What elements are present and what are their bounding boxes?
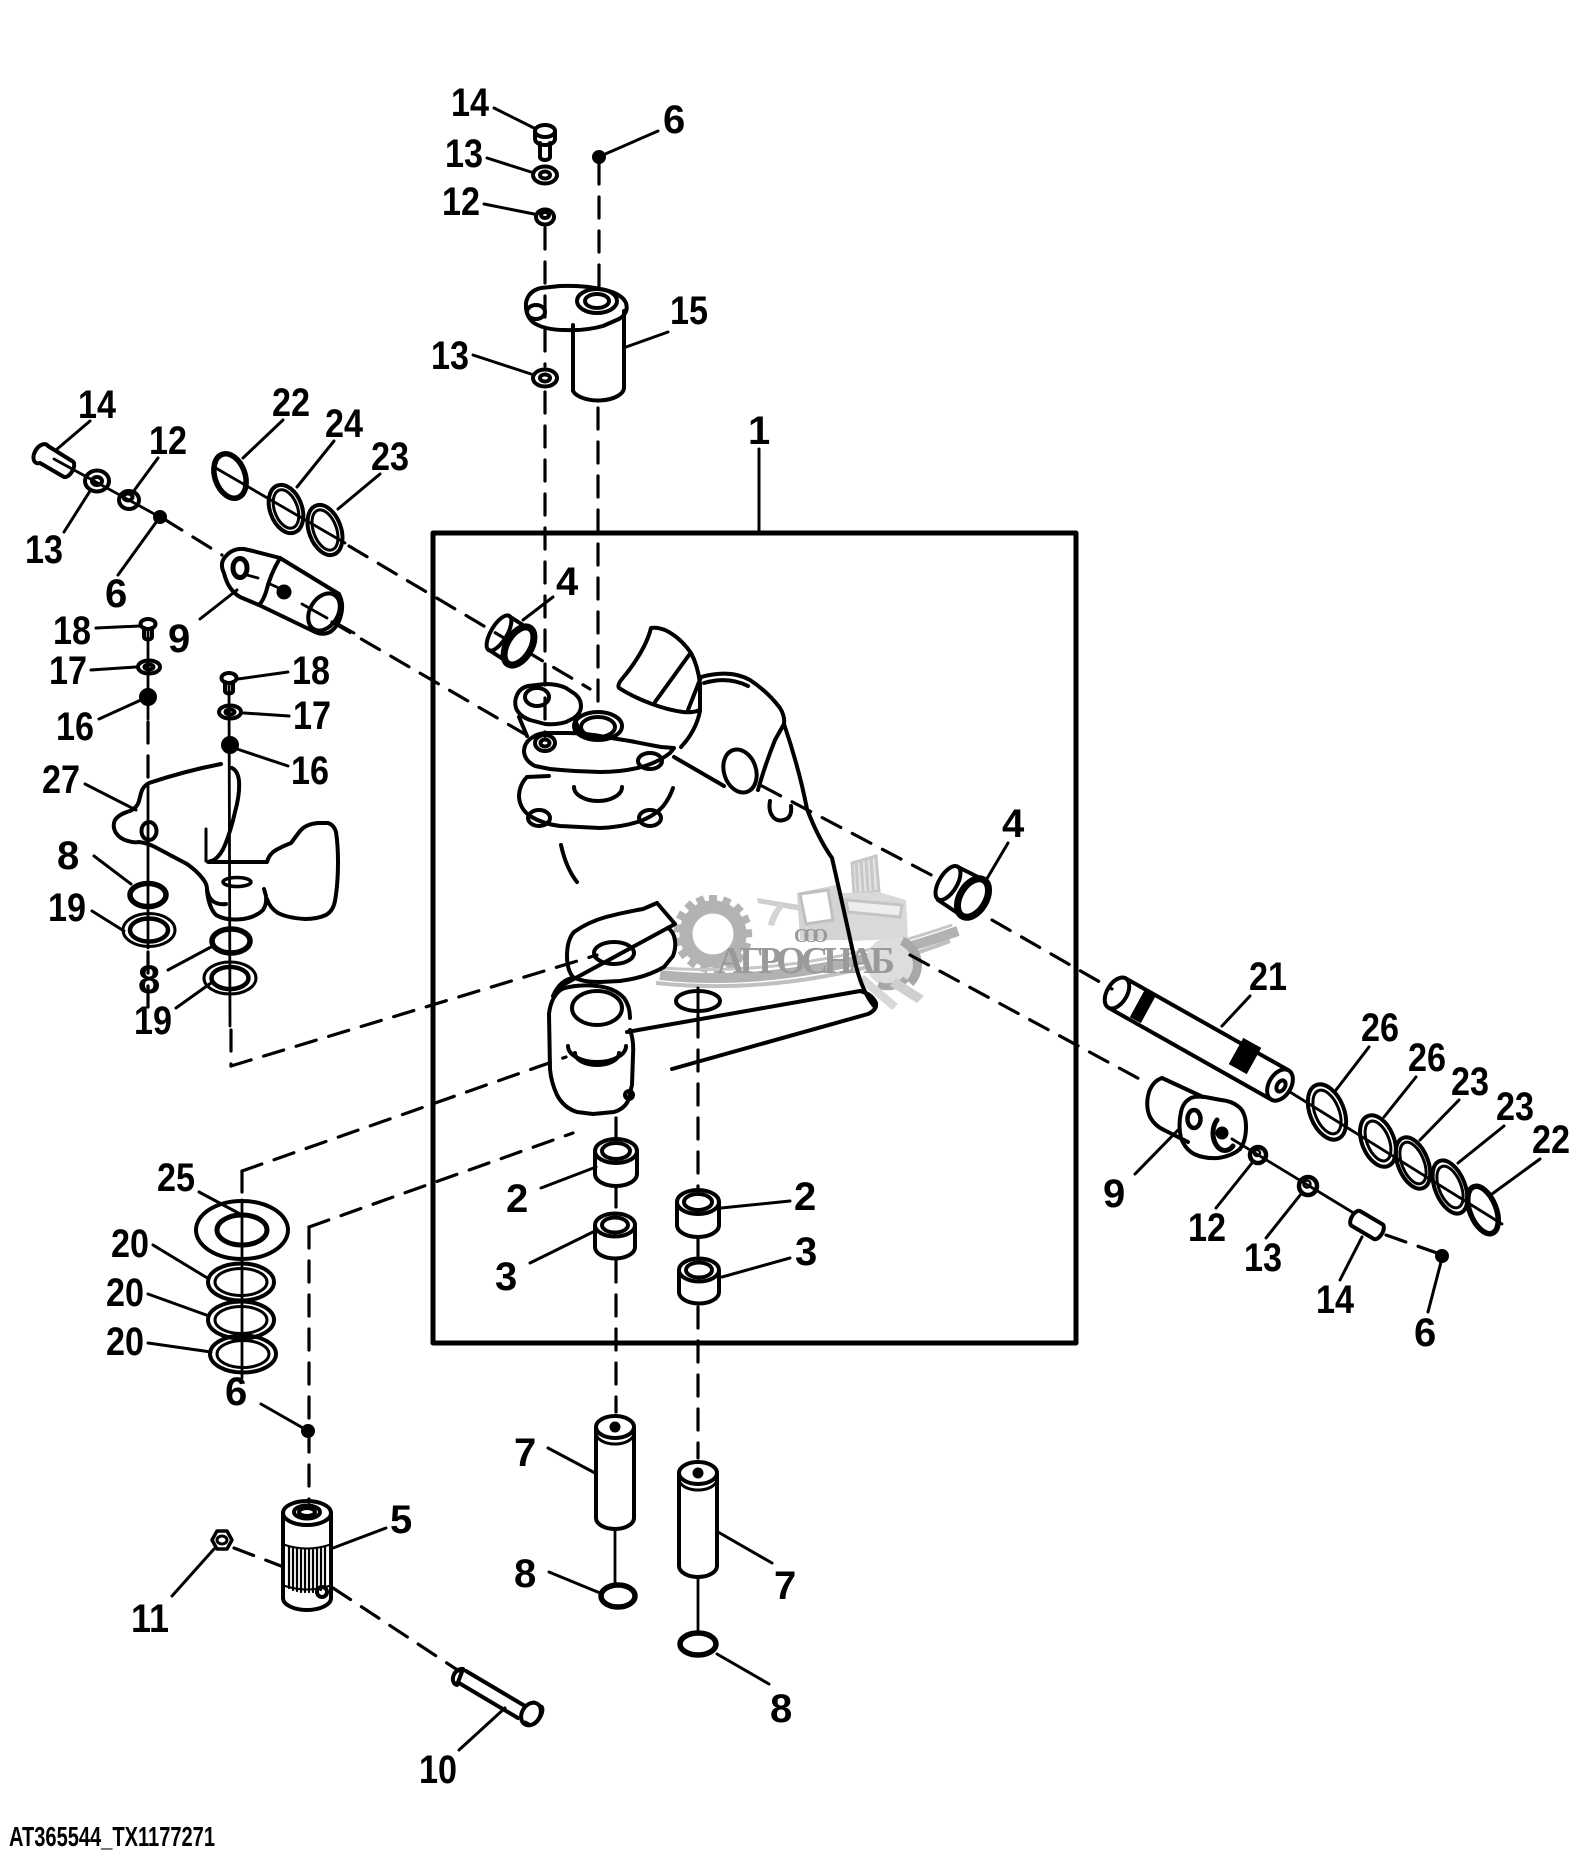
axis right bracket column [229, 684, 230, 1026]
box part 1 outline [433, 533, 1076, 1343]
svg-text:20: 20 [106, 1271, 144, 1315]
leader label 13 right [1266, 1194, 1301, 1238]
bracket 27 slot [223, 878, 251, 887]
ball 16 right [223, 738, 237, 752]
washer 13 top [533, 167, 557, 184]
svg-text:20: 20 [111, 1222, 149, 1266]
bracket 27 bottom lobe [207, 889, 266, 920]
washer 13 left [85, 471, 109, 492]
part 9 left block [222, 549, 280, 605]
svg-text:23: 23 [1496, 1085, 1534, 1129]
svg-text:2: 2 [506, 1177, 528, 1221]
svg-text:6: 6 [225, 1370, 247, 1414]
leader label 6 left [118, 521, 157, 575]
bushing 2 left [595, 1139, 637, 1163]
svg-text:9: 9 [1103, 1172, 1125, 1216]
leader label 5 [333, 1528, 386, 1548]
leader label 23 b [1458, 1126, 1504, 1163]
washer 13 right [1299, 1177, 1317, 1195]
svg-text:15: 15 [670, 289, 708, 333]
svg-text:17: 17 [293, 694, 331, 738]
leader label 23 left [338, 474, 380, 509]
leader label 3 right [722, 1258, 790, 1277]
bushing 4 left body [482, 612, 516, 655]
ring 26 a [1300, 1079, 1353, 1146]
nut 11 [212, 1531, 232, 1549]
svg-text:2: 2 [794, 1175, 816, 1219]
ring 12 top [536, 210, 554, 225]
casting arm [627, 991, 876, 1069]
svg-text:24: 24 [325, 402, 364, 446]
dashed axis screw 18 left column [146, 722, 149, 784]
ring 22 right [1462, 1182, 1505, 1238]
svg-text:12: 12 [1188, 1206, 1226, 1250]
bolt 14 left [33, 444, 74, 477]
svg-text:6: 6 [1414, 1311, 1436, 1355]
part 9 left clevis hole [233, 559, 247, 578]
part 9 right body [1147, 1078, 1203, 1142]
svg-text:14: 14 [1316, 1278, 1355, 1322]
bushing 3 left [595, 1214, 635, 1237]
svg-text:1: 1 [748, 409, 770, 453]
leader label 17 left [91, 667, 136, 670]
svg-text:6: 6 [663, 98, 685, 142]
svg-text:20: 20 [106, 1320, 144, 1364]
svg-text:14: 14 [451, 81, 490, 125]
dashed axis Q: part 9 left body to casting small hole [332, 622, 530, 737]
dashed axis right bushing stack (x=698) [696, 1016, 699, 1188]
pin 14 right [1350, 1211, 1384, 1239]
dashed axis P: bolt 14 left to clevis of part 9 [164, 519, 222, 555]
casting lower big hole arc [574, 787, 622, 801]
part 9 left dot [279, 587, 290, 598]
screw 18 right [222, 673, 237, 683]
casting row4 hole [594, 942, 634, 964]
dashed axis R: rings 22/24/23 to bushing 4 left into casting [349, 546, 590, 689]
dashed axis: pin 14 right to dot 6 [1386, 1235, 1437, 1253]
casting row3 holes [528, 810, 550, 826]
casting row1 to row2 links [519, 717, 579, 736]
pin 7 left [596, 1416, 634, 1438]
dashed axis bolt 14 top (x=545) [148, 163, 1437, 1671]
svg-text:4: 4 [556, 560, 579, 604]
svg-text:22: 22 [1532, 1118, 1570, 1162]
leader label 15 [626, 332, 668, 347]
leader label 22 left [243, 420, 283, 458]
part 5 knurled cylinder [283, 1501, 331, 1525]
leader label 27 [85, 784, 136, 810]
leader label 8 bottom right [717, 1654, 769, 1684]
bushing 4 right body [930, 862, 965, 904]
svg-text:12: 12 [442, 180, 480, 224]
svg-text:6: 6 [105, 572, 127, 616]
svg-text:13: 13 [431, 334, 469, 378]
casting top wing [618, 628, 700, 713]
svg-text:5: 5 [390, 1498, 412, 1542]
svg-text:8: 8 [57, 834, 79, 878]
part 9 right clevis small hole [1188, 1110, 1201, 1128]
washer 13 mid [533, 370, 557, 387]
ring 8 bracket right [212, 929, 250, 953]
pin 7 right [679, 1462, 717, 1484]
bushing 2 right [677, 1190, 719, 1214]
dashed axis nut 11 to part 5 [234, 1548, 281, 1566]
part 15 small hole [527, 305, 545, 319]
svg-text:23: 23 [371, 435, 409, 479]
leader label 13 mid [473, 355, 531, 374]
washer 17 left [138, 661, 160, 674]
svg-text:26: 26 [1361, 1006, 1399, 1050]
svg-text:4: 4 [1002, 802, 1025, 846]
screw 18 left [141, 619, 156, 629]
leader label 10 [459, 1708, 505, 1750]
leader label 14 left [56, 421, 90, 450]
bushing 4 left front ring [498, 622, 540, 670]
casting row3 plate [519, 777, 673, 828]
svg-text:23: 23 [1451, 1060, 1489, 1104]
cylinder 21 [1109, 978, 1288, 1100]
svg-text:13: 13 [25, 528, 63, 572]
casting row5 clevis [549, 1014, 633, 1114]
leader label 19 left [92, 911, 124, 931]
part 15 plate [526, 286, 627, 330]
axis screw 18 left [147, 629, 150, 719]
leader label 4 right [985, 843, 1008, 882]
svg-text:10: 10 [419, 1748, 457, 1792]
leader label 13 left [64, 491, 90, 532]
washer 20 a [208, 1264, 274, 1301]
bracket 27 fold line [205, 829, 208, 861]
ring 23 b [1426, 1155, 1475, 1218]
dot 6 right [1437, 1251, 1447, 1261]
ring 24 [262, 480, 309, 538]
leader label 6 top [603, 131, 658, 155]
axis line through rings 22 24 23 [214, 467, 345, 543]
svg-text:16: 16 [291, 749, 329, 793]
casting mid-right edge [674, 757, 724, 786]
svg-text:26: 26 [1408, 1036, 1446, 1080]
leader label 21 [1222, 996, 1250, 1026]
svg-text:19: 19 [48, 886, 86, 930]
watermark gear [674, 895, 752, 973]
casting J hook [770, 801, 792, 821]
svg-text:17: 17 [49, 649, 87, 693]
svg-text:13: 13 [1244, 1236, 1282, 1280]
casting clevis small circle [625, 1091, 633, 1099]
casting arm circle hole [676, 991, 720, 1011]
casting clevis big hole [572, 991, 622, 1025]
casting fin oval hole [718, 745, 762, 797]
axis line bolt 14 left [54, 459, 158, 516]
part 9 right block [1180, 1097, 1247, 1159]
dashed axis: casting arm to part 9 right [910, 955, 1145, 1082]
axis washers 25-20 [241, 1200, 244, 1378]
svg-text:18: 18 [53, 609, 91, 653]
svg-text:11: 11 [131, 1597, 169, 1641]
dashed axis left bushing stack (x=616) [614, 1118, 617, 1137]
watermark swoosh [660, 931, 958, 978]
ring 19 right [204, 962, 256, 994]
dashed diagonal D1 bracket column to casting [231, 955, 597, 1066]
leader label 18 right [238, 672, 288, 679]
svg-text:19: 19 [134, 999, 172, 1043]
svg-text:3: 3 [495, 1255, 517, 1299]
casting row4 lug [567, 928, 675, 982]
washer 20 c [210, 1336, 276, 1373]
svg-text:8: 8 [138, 958, 160, 1002]
leader label 17 right [244, 713, 289, 716]
dashed diagonal D2 washer 25 column to casting [242, 1057, 566, 1171]
leader label 4 left [523, 597, 553, 620]
dashed axis pin 6 top (x=598) [597, 163, 600, 286]
leader label 26 a [1336, 1047, 1369, 1090]
leader label 9 right [1135, 1128, 1180, 1174]
svg-text:7: 7 [514, 1431, 536, 1475]
leader label 16 right [237, 749, 288, 766]
casting row1 hole [525, 688, 549, 706]
leader label 25 [199, 1192, 242, 1215]
leader label 12 left [133, 458, 158, 492]
bolt 14 top [535, 125, 555, 137]
part 15 boss [577, 289, 617, 313]
leader label 8 bracket left [94, 856, 131, 884]
casting boss big hole [574, 712, 622, 740]
bushing 3 right [679, 1259, 719, 1282]
dashed axis: bushing 4 right to cylinder 21 [992, 920, 1112, 989]
ring 8 bracket left [130, 884, 166, 907]
ring 12 left [119, 491, 139, 509]
leader label 7 right [718, 1532, 772, 1563]
casting wing fold line [655, 655, 689, 702]
ring 22 left [208, 449, 252, 502]
cylinder 21 band a [1137, 1004, 1148, 1010]
casting clevis boss arcs [568, 1046, 626, 1062]
svg-text:12: 12 [149, 419, 187, 463]
ring 8 bottom right [680, 1633, 716, 1655]
casting row1 top-left lug [515, 684, 581, 724]
leader label 24 [297, 441, 334, 487]
part 9 left body [259, 558, 342, 634]
dashed diagonal D3 part 5 column to casting [309, 1133, 573, 1227]
leader label 11 [172, 1549, 214, 1596]
dashed axis right bracket column [229, 1030, 232, 1066]
leader label 13 top [487, 158, 531, 172]
watermark logo group [656, 856, 958, 1010]
svg-text:22: 22 [272, 381, 310, 425]
dot 6 bottom [303, 1426, 313, 1436]
ball 16 left [141, 690, 155, 704]
leader label 20 c [148, 1343, 211, 1352]
leader label 20 b [148, 1294, 209, 1316]
svg-text:8: 8 [770, 1687, 792, 1731]
ring 23 left [301, 500, 349, 560]
axis left bracket column lower [147, 786, 150, 948]
svg-text:27: 27 [42, 758, 80, 802]
dot 6 top [594, 152, 604, 162]
leader label 6 bottom [261, 1404, 303, 1428]
leader label 23 a [1420, 1100, 1459, 1140]
casting row2 right hole [638, 753, 662, 769]
svg-text:25: 25 [157, 1156, 195, 1200]
leader label 8 bracket right [168, 947, 211, 970]
svg-text:8: 8 [514, 1552, 536, 1596]
leader label 14 top [494, 108, 534, 128]
leader label 14 right [1340, 1237, 1362, 1280]
leader label 7 left [548, 1448, 595, 1473]
casting row2 target hole [535, 735, 555, 751]
svg-text:21: 21 [1249, 955, 1287, 999]
ring 19 left [123, 914, 175, 947]
cylinder 21 band b [1236, 1051, 1254, 1061]
axis through rings 26 26 23 23 22 [1290, 1092, 1502, 1224]
leader label 18 left [96, 626, 140, 628]
bushing 4 right front ring [951, 873, 995, 922]
washer 20 b [208, 1302, 274, 1339]
svg-text:16: 16 [56, 705, 94, 749]
bracket 27 right piece [208, 768, 338, 919]
casting neck [561, 845, 577, 882]
leader label 2 right [721, 1201, 790, 1208]
nut 12 right [1250, 1147, 1266, 1163]
part 9 right clevis big hole [1213, 1120, 1233, 1150]
bracket 27 hole [142, 822, 157, 840]
svg-text:13: 13 [445, 132, 483, 176]
leader label 3 left [530, 1231, 595, 1263]
leader label 26 b [1384, 1077, 1416, 1117]
svg-text:18: 18 [292, 649, 330, 693]
bracket 27 left plate [114, 764, 226, 904]
axis pin 7 right to ring 8 [697, 1578, 700, 1632]
ring 23 a [1389, 1132, 1437, 1193]
ring 8 bottom left [601, 1585, 635, 1607]
casting row2 plate [524, 733, 674, 772]
leader label 19 right [176, 983, 211, 1008]
pin 10 [453, 1669, 463, 1685]
leader label 8 bottom left [549, 1572, 600, 1593]
casting right fin [701, 674, 784, 740]
dashed axis part 5 to pin 10 [333, 1588, 459, 1671]
ring 26 b [1353, 1110, 1403, 1172]
axis pin assembly right [1232, 1139, 1352, 1212]
svg-text:7: 7 [774, 1564, 796, 1608]
leader label 12 top [484, 204, 534, 214]
dashed axis: casting oval to bushing 4 right [762, 786, 937, 878]
leader label 6 right [1428, 1262, 1441, 1312]
axis pin 7 left to ring 8 [614, 1530, 617, 1584]
leader label 22 right [1492, 1159, 1540, 1194]
svg-text:14: 14 [78, 383, 117, 427]
svg-text:AT365544_TX1177271: AT365544_TX1177271 [9, 1821, 215, 1852]
leader label 2 left [541, 1167, 596, 1188]
dot 6 left [155, 512, 165, 522]
svg-text:9: 9 [168, 617, 190, 661]
washer 17 right [219, 706, 241, 719]
leader line label 1 [758, 449, 761, 531]
watermark harvester silhouette [757, 856, 924, 1010]
svg-text:3: 3 [795, 1230, 817, 1274]
washer 25 [196, 1201, 288, 1259]
leader label 16 left [99, 700, 141, 719]
leader label 20 a [153, 1245, 209, 1279]
part 9 left axis tick [302, 604, 354, 633]
part 15 cylinder [573, 311, 624, 400]
leader label 9 left [200, 590, 237, 619]
leader label 12 right [1216, 1163, 1252, 1208]
svg-text:АГРОСНАБ: АГРОСНАБ [717, 940, 895, 982]
